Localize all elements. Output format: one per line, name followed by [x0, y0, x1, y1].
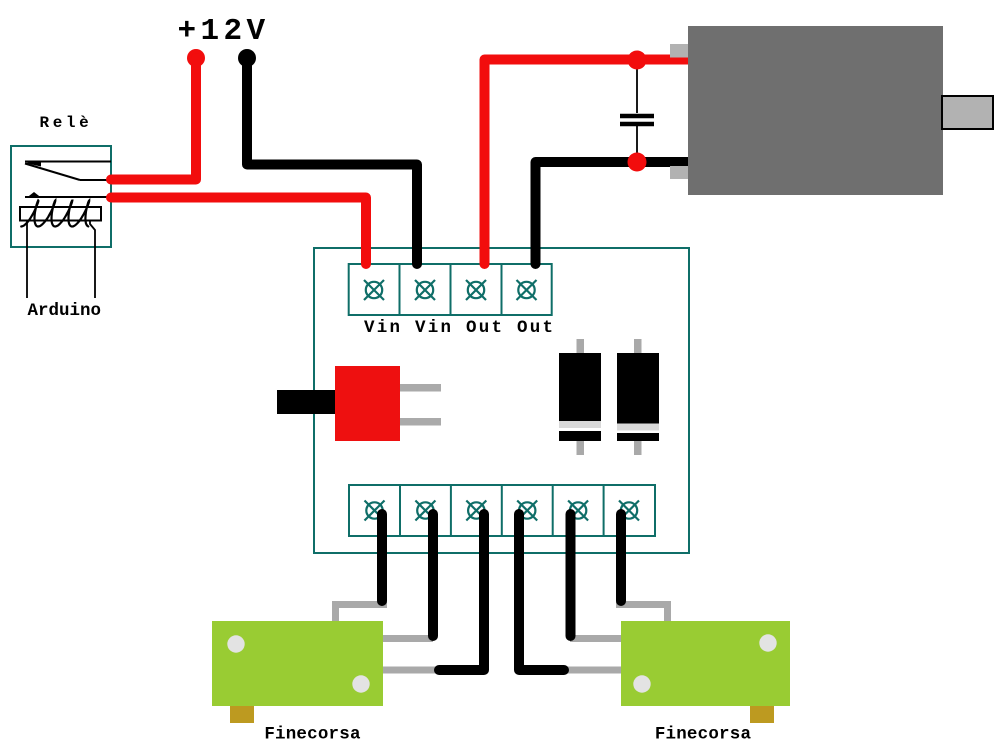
terminal block bottom [349, 485, 655, 536]
wire relay coil lead right to Arduino [90, 221, 95, 298]
terminal block top [349, 264, 552, 315]
board outline [314, 248, 689, 553]
motor terminal tab top [670, 44, 690, 58]
terminal Out1 symbol [466, 280, 486, 300]
limit switch SW1 buttons [227, 635, 244, 652]
diode D2 leads [634, 339, 642, 353]
wire black B6 down [616, 514, 626, 601]
svg-text:Vin Vin Out Out: Vin Vin Out Out [364, 318, 555, 338]
pushbutton S1 pin 2 [400, 418, 441, 426]
wire black B2 down [428, 514, 438, 636]
limit switch SW1 body [212, 621, 383, 706]
wire red Out1 to motor plus [485, 60, 689, 265]
terminal B4 symbol [517, 501, 537, 521]
motor M1 body [688, 26, 943, 195]
capacitor C1 plates [620, 114, 654, 119]
wire relay coil lead left to Arduino [26, 221, 28, 298]
terminal B5 symbol [568, 501, 588, 521]
motor terminal tab bottom [670, 166, 690, 179]
wire gray B4 to right switch [567, 667, 622, 674]
relay K1 coil [20, 207, 101, 221]
terminal Vin2 symbol [415, 280, 435, 300]
wire gray B6 to right switch top [616, 605, 668, 625]
wire gray B1 to left switch top [336, 605, 388, 625]
capacitor C1 leads [636, 60, 638, 113]
pushbutton S1 actuator [277, 390, 335, 414]
svg-text:Relè: Relè [40, 114, 93, 132]
wire gray B5 to right switch [570, 635, 622, 642]
relay K1 switch blade contact [25, 162, 111, 181]
wire gray B3 to left switch [381, 667, 436, 674]
junction dot motor plus [628, 51, 647, 70]
wire red +12V to relay blade [111, 58, 196, 180]
relay K1 armature contact [25, 196, 111, 198]
wire black Out2 to motor minus [536, 162, 689, 264]
motor M1 shaft [942, 96, 993, 129]
diode D1 leads [577, 339, 585, 353]
terminal Vin1 symbol [364, 280, 384, 300]
limit switch SW2 foot [750, 706, 774, 723]
diode D1 body [559, 353, 601, 441]
wire black B4 down-right [519, 514, 564, 670]
terminal B1 symbol [365, 501, 385, 521]
terminal B6 symbol [619, 501, 639, 521]
terminal B2 symbol [415, 501, 435, 521]
terminal Out2 symbol [517, 280, 537, 300]
wire red relay armature to Vin1 [111, 198, 366, 265]
relay K1 box [11, 146, 111, 247]
limit switch SW1 foot [230, 706, 254, 723]
node +12V black terminal dot [238, 49, 256, 67]
junction dot motor minus [628, 153, 647, 172]
svg-text:Finecorsa: Finecorsa [264, 725, 361, 745]
wire gray B2 to left switch [381, 635, 433, 642]
wire black B3 down-left [439, 514, 484, 670]
pushbutton S1 body [335, 366, 400, 441]
node +12V red terminal dot [187, 49, 205, 67]
terminal B3 symbol [466, 501, 486, 521]
svg-text:+12V: +12V [178, 14, 270, 49]
wire black B1 down [377, 514, 387, 601]
pushbutton S1 pin 1 [400, 384, 441, 392]
svg-text:Arduino: Arduino [28, 301, 102, 321]
wire black +12V to Vin2 [247, 58, 417, 264]
diode D2 body [617, 353, 659, 441]
wire black B5 down [566, 514, 576, 636]
limit switch SW2 body [621, 621, 790, 706]
limit switch SW2 buttons [759, 634, 776, 651]
svg-text:Finecorsa: Finecorsa [655, 725, 752, 745]
